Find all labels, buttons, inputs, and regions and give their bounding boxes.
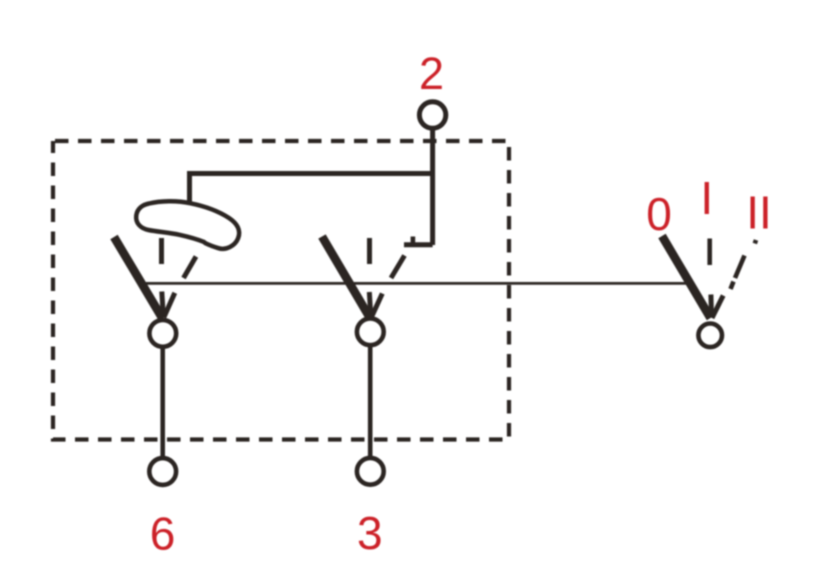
middle switch: lever [322, 237, 370, 319]
contact hook of middle switch [404, 242, 433, 247]
right switch: lever [662, 236, 711, 318]
right switch: arrow barb (slanted) [712, 296, 723, 319]
left switch: arrow barb (vertical) [162, 292, 164, 317]
thick link wire (horizontal) [189, 171, 435, 176]
right switch: pivot circle [698, 324, 722, 348]
left switch: arrow barb (slanted) [164, 293, 175, 318]
wire from left contact down to terminal 6 [160, 347, 165, 459]
right switch: position I dash [707, 239, 712, 266]
right switch: position II dashed line (dot) [755, 240, 756, 244]
svg-text:2: 2 [419, 48, 444, 99]
wire from terminal 2 down to contact hook [430, 128, 435, 245]
svg-text:0: 0 [646, 188, 672, 240]
middle switch: position II dash [391, 256, 405, 279]
coupling line (thin mechanical link across switches) [143, 282, 691, 285]
right switch: arrow barb (vertical) [708, 295, 714, 317]
svg-text:3: 3 [357, 507, 383, 559]
middle switch: position I dash [367, 238, 372, 264]
left switch: lever [114, 237, 163, 319]
middle switch: arrow barb (slanted) [371, 294, 382, 318]
cam (bean-shaped follower) [136, 201, 239, 249]
enclosure dashed box [53, 141, 509, 440]
svg-text:I: I [700, 172, 713, 224]
left switch: position I dash [159, 238, 164, 264]
right switch: position II dashed line (long dash) [735, 256, 745, 279]
terminal 2 circle [419, 102, 445, 128]
left switch: position II dash [184, 257, 197, 279]
right switch: position II dashed line (short dash) [731, 282, 734, 290]
svg-text:II: II [746, 187, 772, 239]
wire drop from link wire to cam [187, 171, 192, 210]
middle switch: movable contact circle [357, 318, 384, 345]
left switch: movable contact circle [149, 320, 176, 347]
terminal 3 circle [357, 458, 384, 485]
wire from middle contact down to terminal 3 [368, 345, 373, 459]
svg-text:6: 6 [150, 508, 176, 560]
terminal 6 circle [149, 458, 176, 485]
middle switch: arrow barb (vertical) [369, 292, 371, 316]
